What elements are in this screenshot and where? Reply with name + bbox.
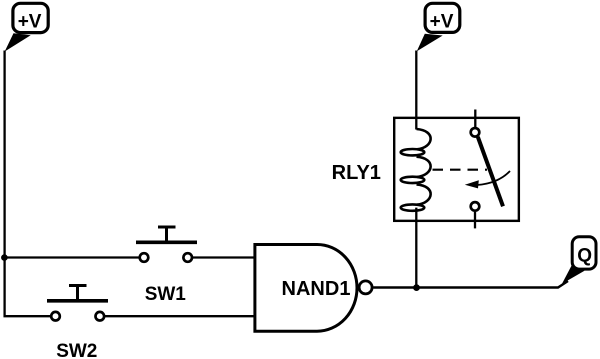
junction dot output/relay (413, 284, 420, 291)
svg-text:NAND1: NAND1 (282, 278, 351, 300)
relay RLY1 box (394, 118, 519, 221)
svg-text:SW1: SW1 (145, 284, 187, 305)
relay contact terminal top (474, 110, 476, 128)
wire relay coil top from +V right (415, 51, 417, 130)
junction dot left (1, 254, 8, 261)
wire SW1 to NAND input A (193, 256, 256, 258)
power +V left (5, 3, 48, 51)
svg-text:+V: +V (18, 12, 42, 33)
relay switch arm (478, 137, 503, 207)
svg-text:RLY1: RLY1 (332, 162, 381, 184)
wire NAND output to Q (373, 281, 568, 288)
relay actuation dashed line (433, 169, 488, 171)
power +V right (417, 3, 460, 51)
svg-text:Q: Q (577, 245, 592, 266)
NAND gate NAND1 (255, 245, 372, 332)
svg-text:+V: +V (430, 12, 454, 33)
wire relay coil bottom to junction (415, 208, 417, 288)
wire left dot to SW1 (4, 256, 139, 258)
relay contact terminal bottom (471, 202, 480, 211)
wire SW2 to NAND input B (105, 315, 256, 317)
svg-text:SW2: SW2 (56, 341, 97, 359)
output Q (562, 237, 596, 284)
wire left vertical from +V to SW2 row (5, 51, 52, 317)
switch SW2 (47, 286, 108, 321)
relay arrow (477, 171, 510, 185)
switch SW1 (136, 227, 197, 262)
relay coil (401, 129, 431, 211)
